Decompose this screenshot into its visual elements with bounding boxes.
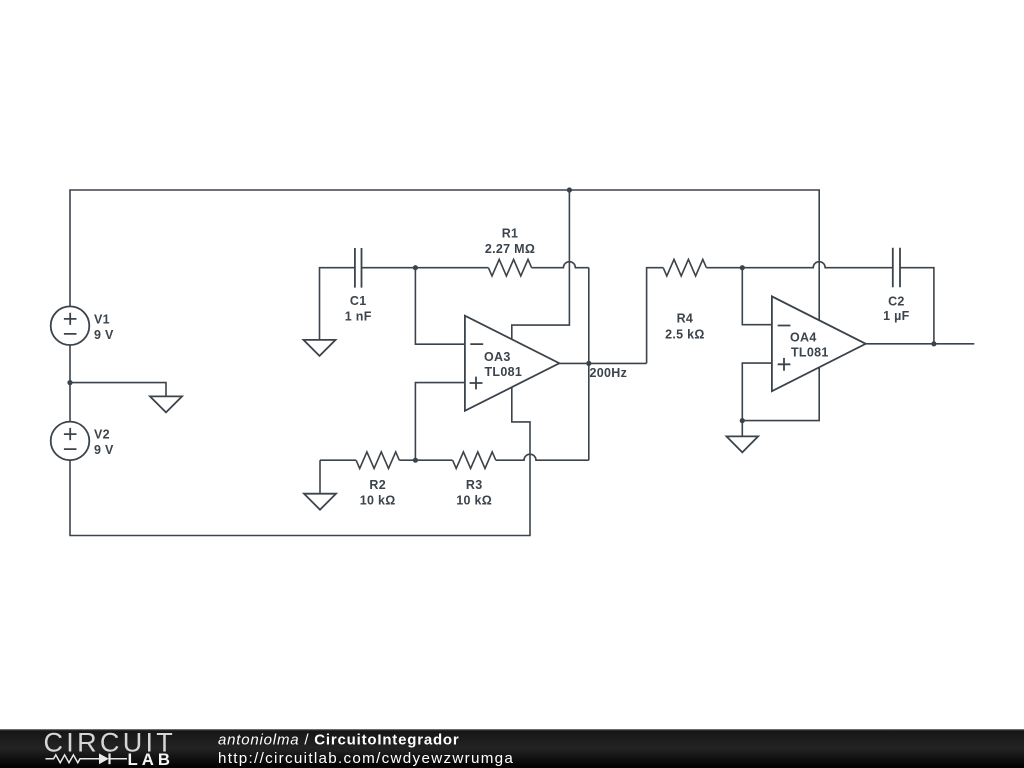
wire: OA4 output stub xyxy=(866,343,975,345)
wire: R2 left lead xyxy=(320,459,356,461)
wire: C1 left plate to ground xyxy=(320,268,355,340)
svg-text:C1: C1 xyxy=(350,294,367,308)
resistor R3 xyxy=(453,452,496,469)
svg-text:10 kΩ: 10 kΩ xyxy=(360,494,396,508)
wire: top V+ rail from V1 plus terminal to OA4 V+ stub xyxy=(70,190,819,320)
wire: R2 ground branch xyxy=(319,460,321,494)
wire: OA4 V- power stub to ground node xyxy=(742,368,819,421)
wire: R3 right lead with hop over OA3 V- wire xyxy=(496,454,589,460)
svg-text:R1: R1 xyxy=(502,226,519,240)
svg-text:TL081: TL081 xyxy=(791,345,829,359)
capacitor C2 xyxy=(893,248,900,288)
wire: ground node stem xyxy=(741,421,743,437)
node: junction on top rail above OA3 xyxy=(567,187,572,192)
svg-text:http://circuitlab.com/cwdyewzw: http://circuitlab.com/cwdyewzwrumga xyxy=(218,750,514,767)
wire: OA3 plus input to R2/R3 node xyxy=(415,383,465,461)
svg-text:OA3: OA3 xyxy=(484,350,511,364)
wire: R1 feedback vertical to output node xyxy=(588,268,590,364)
wire: output corner up to R4 left lead xyxy=(647,268,664,364)
wire: mid node to ground xyxy=(70,383,166,397)
ground (OA4) xyxy=(727,436,759,452)
svg-text:R4: R4 xyxy=(677,312,694,326)
wire: OA4 inverting node down to minus input xyxy=(742,268,772,325)
node: OA3 output node (200Hz net) xyxy=(586,361,591,366)
node: OA4 inverting node (R4/C2 junction) xyxy=(740,265,745,270)
svg-text:200Hz: 200Hz xyxy=(590,366,628,380)
wire: R2 right lead to node and R3 left lead xyxy=(399,459,452,461)
wire: C1 right plate to inverting node and R1 left lead xyxy=(362,267,489,269)
wire: OA4 plus input to ground node xyxy=(742,363,772,421)
ground (battery midpoint) xyxy=(150,396,182,412)
svg-text:2.5 kΩ: 2.5 kΩ xyxy=(665,328,705,342)
svg-text:R3: R3 xyxy=(466,478,483,492)
wire: inverting node down to OA3 minus input xyxy=(415,268,465,345)
svg-text:V1: V1 xyxy=(94,312,110,326)
svg-text:1 µF: 1 µF xyxy=(883,309,910,323)
svg-text:C2: C2 xyxy=(888,294,905,308)
wire: output node down to R3 right lead xyxy=(588,363,590,460)
ground (C1) xyxy=(304,340,336,356)
svg-text:1 nF: 1 nF xyxy=(345,309,372,323)
footer bar xyxy=(0,729,1024,768)
node: inverting input node (C1/R1 junction) xyxy=(413,265,418,270)
resistor R4 xyxy=(663,259,706,276)
wire: V1 minus to mid node xyxy=(69,345,71,383)
capacitor C1 xyxy=(355,248,362,288)
logo resistor-diode glyph xyxy=(46,755,128,763)
wire: OA3 V+ power stub from top rail xyxy=(512,190,570,340)
wire: C2 right plate down to output node xyxy=(900,268,934,344)
wire: R1 right lead with hop over OA3 V+ stub xyxy=(532,262,589,268)
ground (R2) xyxy=(304,494,336,510)
svg-text:TL081: TL081 xyxy=(485,365,523,379)
op-amp OA3 xyxy=(465,316,559,411)
wire: R4 right lead to OA4 inverting node xyxy=(706,267,742,269)
wire: mid node to V2 plus xyxy=(69,383,71,422)
svg-text:2.27 MΩ: 2.27 MΩ xyxy=(485,242,535,256)
wire: inverting node to C2 left plate with hop over OA4 V+ stub xyxy=(742,262,893,268)
svg-text:antoniolma / CircuitoIntegrado: antoniolma / CircuitoIntegrador xyxy=(218,732,460,749)
svg-text:9 V: 9 V xyxy=(94,328,114,342)
svg-text:LAB: LAB xyxy=(128,750,175,768)
node: junction between V1 and V2 xyxy=(67,380,72,385)
resistor R2 xyxy=(356,452,399,469)
voltage source V2 xyxy=(51,422,90,461)
node: OA3 non-inverting divider node xyxy=(413,458,418,463)
node: OA4 ground node xyxy=(740,418,745,423)
svg-text:9 V: 9 V xyxy=(94,443,114,457)
wire: V- rail from V2 bottom along bottom and up to OA3 V- stub xyxy=(70,387,530,535)
resistor R1 xyxy=(488,259,531,276)
node: OA4 output node xyxy=(931,341,936,346)
wire: OA3 output to R4 branch corner xyxy=(559,362,646,364)
svg-text:V2: V2 xyxy=(94,428,110,442)
svg-text:10 kΩ: 10 kΩ xyxy=(456,494,492,508)
voltage source V1 xyxy=(51,306,90,345)
svg-text:R2: R2 xyxy=(369,478,386,492)
svg-text:OA4: OA4 xyxy=(790,331,817,345)
op-amp OA4 xyxy=(772,296,866,391)
